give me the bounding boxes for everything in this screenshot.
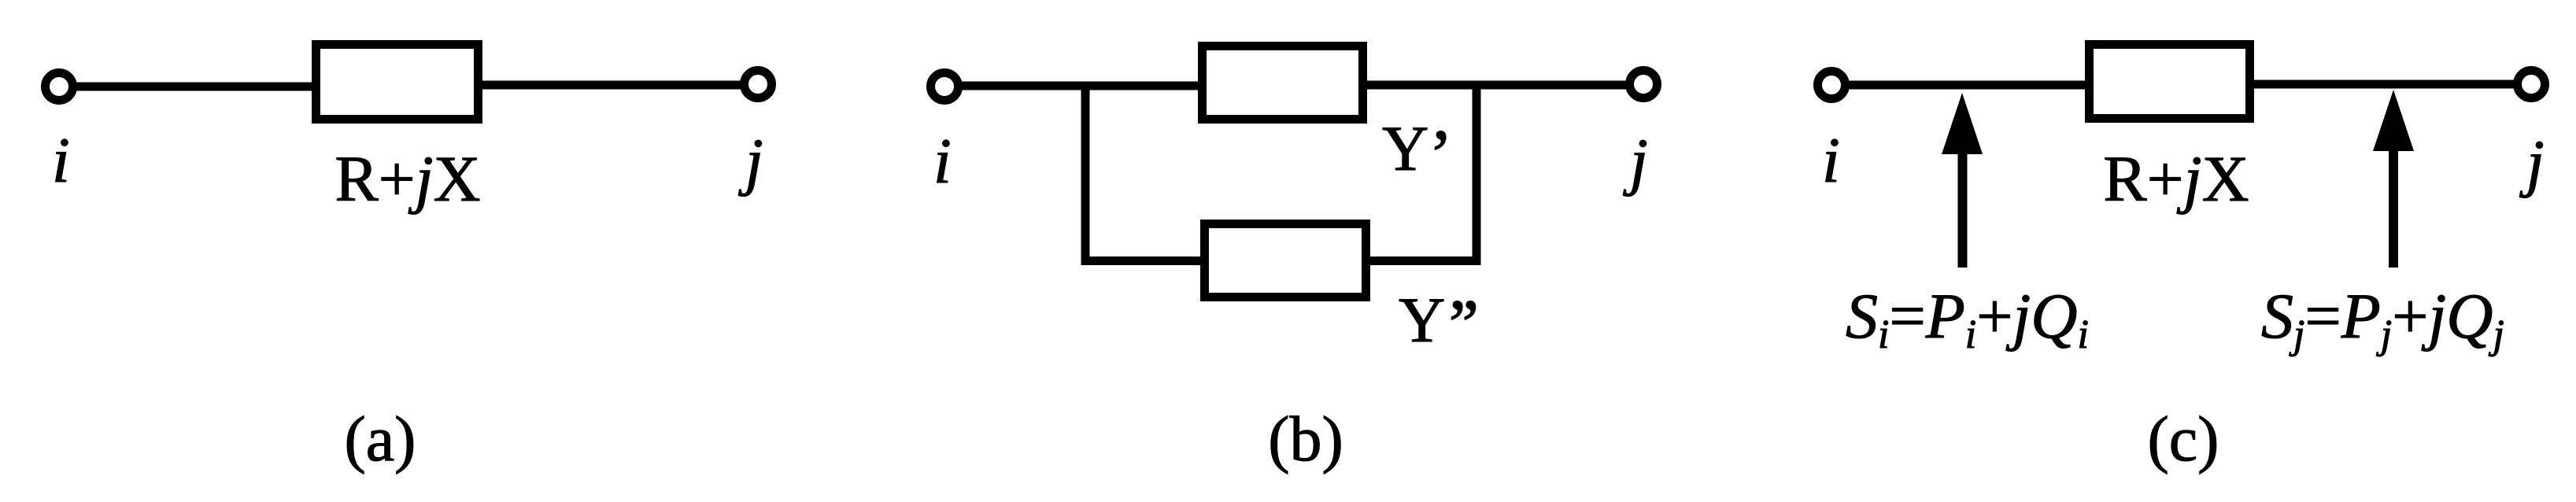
terminal node j bbox=[2518, 71, 2545, 98]
bottom branch wire left bbox=[1081, 257, 1206, 265]
junction riser left bbox=[1081, 86, 1090, 265]
terminal node i bbox=[46, 73, 73, 101]
admittance box Y' bbox=[1203, 46, 1363, 120]
svg-text:R+jX: R+jX bbox=[334, 142, 480, 215]
power flow arrow Si head bbox=[1942, 93, 1983, 154]
svg-text:j: j bbox=[738, 125, 763, 197]
terminal node i bbox=[1818, 72, 1846, 99]
terminal node j bbox=[745, 71, 772, 98]
svg-text:j: j bbox=[2519, 127, 2545, 198]
wire i to impedance box bbox=[1845, 81, 2090, 90]
svg-text:(a): (a) bbox=[344, 403, 416, 474]
svg-text:i: i bbox=[1822, 124, 1840, 196]
junction riser right bbox=[1473, 85, 1481, 265]
svg-text:(b): (b) bbox=[1268, 403, 1343, 474]
power flow arrow Sj head bbox=[2373, 90, 2414, 151]
terminal node j bbox=[1630, 71, 1658, 98]
svg-text:Y’: Y’ bbox=[1382, 113, 1453, 195]
svg-text:i: i bbox=[933, 125, 952, 197]
impedance box R+jX bbox=[2090, 45, 2250, 119]
svg-text:j: j bbox=[1623, 125, 1648, 197]
power flow arrow Si shaft bbox=[1958, 151, 1968, 268]
wire i to top admittance box bbox=[958, 82, 1203, 90]
svg-text:i: i bbox=[52, 124, 70, 196]
impedance box R+jX bbox=[316, 45, 479, 120]
wire top box to j bbox=[1362, 81, 1630, 90]
svg-text:(c): (c) bbox=[2147, 403, 2219, 474]
svg-text:Y’’: Y’’ bbox=[1399, 284, 1477, 365]
wire impedance box to j bbox=[476, 81, 745, 90]
wire impedance box to j bbox=[2249, 80, 2518, 89]
bottom branch wire right bbox=[1366, 257, 1481, 265]
svg-text:Si=Pi+jQi: Si=Pi+jQi bbox=[1846, 280, 2089, 357]
svg-text:Sj=Pj+jQj: Sj=Pj+jQj bbox=[2261, 280, 2504, 357]
admittance box Y'' bbox=[1205, 224, 1366, 297]
svg-text:R+jX: R+jX bbox=[2103, 142, 2249, 215]
terminal node i bbox=[931, 73, 959, 101]
wire i to impedance box bbox=[72, 83, 318, 91]
power flow arrow Sj shaft bbox=[2389, 148, 2398, 268]
